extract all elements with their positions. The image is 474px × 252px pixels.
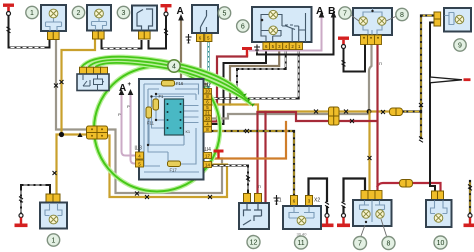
splices and break marks — [7, 27, 473, 208]
chassis ground symbol near lamp11 — [274, 195, 280, 205]
arrow to rear (black pennant with red tip) — [430, 77, 471, 83]
wire: brown from switch6 pin 3 to fuse area — [230, 50, 279, 105]
arrowheads A B — [319, 11, 337, 18]
svg-text:F1: F1 — [159, 94, 165, 99]
licence plate lamp (bottom left) — [40, 194, 67, 229]
label circle 10 — [434, 236, 447, 249]
wire: pink A horizontal near switch6 — [250, 17, 322, 51]
wire: yellow branch down to rear lamp connector — [368, 112, 370, 191]
wire: black/white dashed from ground G1 to licence lamp — [21, 185, 50, 215]
svg-text:17: 17 — [205, 153, 210, 158]
svg-text:Ш2: Ш2 — [204, 83, 212, 89]
green arcs from relay pins to fuse pins — [82, 57, 244, 94]
relay K1 (teal) inside fusebox — [165, 99, 184, 135]
lamp 9 (top right) — [434, 8, 471, 32]
wire: black/white dashed from T1 to lamp1 connector — [9, 40, 50, 48]
svg-text:7: 7 — [343, 11, 347, 18]
wire: crimson stub down right of switch12 — [264, 112, 266, 203]
ground G4 far right — [464, 214, 474, 228]
svg-text:6: 6 — [241, 24, 245, 31]
wire: brown from switch5 left pin to fuse pin 10 — [201, 41, 208, 89]
svg-text:B: B — [328, 5, 336, 17]
wire: black/white dashed lamp2 to switch3 — [102, 40, 142, 49]
inline connector on red tail wire — [400, 180, 413, 188]
wire: crimson with T terminal to fuse pin 21 — [212, 57, 248, 122]
svg-text:F11: F11 — [147, 121, 155, 126]
wire: yellow from inline connector right, down, along bottom to pin 14 — [107, 136, 227, 198]
wire: black from lamp9 down to tail lamp 10 — [430, 23, 435, 192]
svg-text:2: 2 — [77, 10, 81, 17]
rear lamp cluster (bottom, lamps 7/8) — [353, 191, 392, 237]
label circle 5 — [218, 7, 230, 19]
svg-text:1: 1 — [30, 10, 34, 17]
wire: yellow main feed fuse pin 5 to right area — [212, 105, 390, 112]
svg-text:П: П — [379, 61, 382, 66]
arrowheads A+ — [119, 89, 134, 95]
label circle 1 — [26, 6, 38, 18]
switch 6 (column switch) — [252, 7, 312, 50]
wire: pink feed A+ to fuse pin 5 — [131, 95, 136, 164]
ground G2 — [321, 214, 334, 228]
fuse F16 — [162, 81, 175, 87]
switch 3 — [132, 6, 157, 40]
label circle 7 (bottom) — [354, 237, 367, 250]
fusebox right lower pins Ш4 — [204, 147, 212, 168]
wire: black-yellow dashed from lamp9 down to inline connector — [403, 16, 434, 112]
fuse F17 — [168, 161, 181, 167]
wire: black from terminal T1 down left edge — [8, 14, 10, 48]
wire: black/white dashed fuse pin 14 to switch12 — [212, 166, 249, 194]
wire: crimson down to switch12 — [256, 112, 258, 193]
green ellipse loop around fusebox — [94, 67, 220, 192]
label circle 12 — [247, 236, 260, 249]
ground G3 — [337, 214, 350, 228]
svg-text:21: 21 — [205, 111, 210, 116]
svg-text:X2: X2 — [314, 198, 320, 204]
label circle 11 — [295, 236, 308, 249]
wire: black-yellow dashed fuse pin 12 to lamp11 — [212, 131, 295, 196]
inline connector on yellow/crimson pair — [329, 107, 340, 125]
svg-text:4: 4 — [172, 64, 176, 71]
label circle 9 — [454, 39, 466, 51]
triangle break on yellow — [77, 133, 82, 138]
junction dot yellow/gray column — [367, 109, 372, 114]
tail lamp 10 — [426, 191, 452, 227]
fuse F11 — [146, 107, 152, 118]
junction dot — [59, 132, 64, 137]
svg-text:X1: X1 — [275, 198, 281, 204]
svg-text:Р: Р — [127, 104, 130, 109]
svg-text:3: 3 — [122, 10, 126, 17]
ground G1 bottom-left — [15, 214, 28, 228]
wire: brown from arrow A down to fusebox top — [180, 20, 182, 79]
svg-text:11: 11 — [297, 240, 304, 247]
svg-text:12: 12 — [250, 240, 258, 247]
wire: yellow horizontal at junction to inline connector and down to licence lamp — [57, 135, 96, 195]
svg-text:14: 14 — [205, 162, 210, 167]
wire: gray from rear-loom down the middle (tail lamp minus) — [212, 45, 372, 119]
wire: black-yellow dashed branch down with break — [420, 112, 422, 139]
svg-text:8: 8 — [387, 241, 391, 248]
wire: crimson from lamp7/8 top loom down to rear cluster — [376, 45, 378, 191]
terminal T1 top-left — [3, 4, 14, 16]
relay (component near fusebox top-left) — [77, 67, 109, 90]
svg-text:7: 7 — [358, 241, 362, 248]
svg-text:П: П — [258, 184, 261, 189]
wire: black from lamp7/8 loom to terminal T3 — [344, 45, 366, 72]
svg-text:A: A — [316, 5, 324, 17]
svg-text:К1: К1 — [186, 129, 191, 134]
svg-text:Ш3: Ш3 — [135, 146, 143, 152]
svg-text:8: 8 — [400, 12, 404, 19]
inline connector on yellow near lamp9 tail — [390, 108, 403, 116]
green wires (component 4 harness) — [82, 57, 256, 192]
wire: yellow from lamp2 down-left and down to junction — [62, 40, 96, 135]
wire: black from switch6 pin 6 to fuse pin 4 — [212, 50, 267, 125]
tiny wire letters — [118, 61, 382, 189]
wire: crimson/red to tail lamp 10 — [378, 183, 441, 191]
terminal T5 red on orange wire — [214, 150, 224, 159]
label circle 6 — [237, 20, 249, 32]
terminal T4 near switch6 — [242, 47, 252, 57]
label circle 8 (bottom) — [382, 237, 395, 250]
wire: black/white dashed from switch6 pin 4 down-left — [237, 50, 286, 99]
wire: orange fuse pin 17 up to distribution — [212, 122, 287, 159]
wire: black switch3 to terminal T2 — [149, 14, 167, 49]
svg-text:10: 10 — [205, 89, 210, 94]
label circle 7 — [339, 7, 351, 19]
sidelight lamp 2 — [87, 5, 111, 39]
label circle 4 (on green harness) — [168, 60, 180, 72]
fusebox (component: fuse/relay block) — [139, 79, 204, 180]
wires layer — [9, 11, 471, 215]
fuse F1 — [153, 99, 159, 110]
svg-text:10: 10 — [437, 240, 445, 247]
sidelight lamp 1 (top-left) — [41, 5, 66, 40]
label circle 8 — [396, 8, 408, 20]
tick marks (wire continuation) — [7, 27, 11, 33]
wire: black/white dashed fuse pin 8 to switch6 pin 1 — [212, 50, 299, 99]
wire: black B horizontal near switch6 — [257, 17, 334, 55]
svg-text:9: 9 — [458, 43, 462, 50]
svg-text:10: 10 — [205, 116, 210, 121]
wire: pink feed A+ to fuse pin 4 — [122, 95, 136, 156]
label circle 1 (bottom) — [47, 234, 59, 246]
svg-text:Р: Р — [118, 112, 121, 117]
terminal T3 — [338, 37, 349, 49]
svg-text:1: 1 — [52, 238, 56, 245]
lamp 11 (bottom middle) — [275, 196, 321, 237]
wire: crimson horizontal distribution — [258, 112, 377, 121]
lamp cluster 7/8 (top) — [351, 8, 395, 45]
inline connector X (2x2) left — [87, 126, 108, 139]
fusebox right pin column Ш2 — [204, 83, 212, 133]
wire: black staple ground G3 to rear cluster — [344, 179, 366, 202]
wire: black staple lamp11 X2 to ground G2 — [309, 179, 328, 202]
svg-text:A: A — [177, 6, 184, 17]
fusebox left pins Ш3 — [135, 146, 144, 168]
svg-text:5: 5 — [223, 11, 227, 18]
chassis ground symbol near switch5 — [186, 34, 192, 43]
label circle 2 — [72, 6, 84, 18]
wire: teal dashed from switch5 right pin down — [207, 41, 209, 88]
wire: gray from lamp1 down to inline connector X — [56, 40, 95, 130]
svg-text:A: A — [119, 83, 126, 94]
switch 12 (bottom) — [239, 194, 269, 230]
terminal T2 — [161, 4, 172, 16]
svg-text:F17: F17 — [170, 168, 178, 173]
switch 5 — [192, 5, 218, 42]
wire: gray from inline connector right, down left side of fusebox, along bottom to pin 17 — [107, 130, 222, 194]
label circle 3 — [117, 6, 129, 18]
svg-text:+: + — [128, 82, 132, 88]
svg-text:F16: F16 — [176, 81, 184, 86]
chassis ground symbol near switch6 — [254, 45, 260, 55]
splice marks X — [60, 80, 64, 84]
wire: black-yellow dashed ground tail far right — [469, 181, 471, 214]
